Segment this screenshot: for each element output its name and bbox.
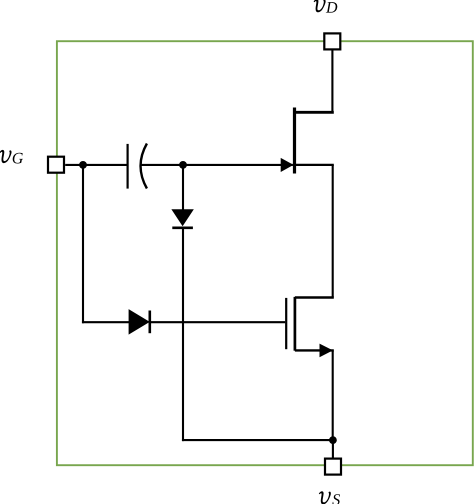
- label vD: [314, 0, 338, 13]
- label vS: [319, 491, 340, 504]
- nmos Q2: [286, 297, 334, 357]
- diode D2: [129, 310, 150, 334]
- wire node B down to diode D1: [182, 165, 184, 211]
- wire bottom rail to node C: [182, 439, 333, 441]
- wire capacitor to JFET gate: [141, 164, 293, 166]
- terminal vG: [48, 157, 64, 173]
- wire vD terminal to JFET drain: [331, 50, 333, 112]
- jfet Q1: [281, 108, 334, 174]
- label vG: [0, 150, 23, 164]
- wire node C to vS terminal: [332, 440, 334, 458]
- node B: [179, 161, 187, 169]
- terminal vD: [324, 33, 340, 49]
- node A: [79, 161, 87, 169]
- capacitor C1: [128, 144, 147, 189]
- wire left rail to diode D2: [82, 321, 130, 323]
- node C: [329, 436, 337, 444]
- wire JFET source to nmos drain: [332, 165, 334, 298]
- wire diode D2 to nmos gate: [150, 321, 285, 323]
- wire nmos source to node C: [332, 350, 334, 440]
- wire diode D1 down to bottom rail: [182, 228, 184, 441]
- terminal vS: [325, 459, 341, 475]
- device outline box: [57, 41, 473, 465]
- wire node A down left rail: [82, 165, 84, 323]
- wire vG terminal to capacitor: [65, 164, 127, 166]
- diode D1: [172, 210, 193, 228]
